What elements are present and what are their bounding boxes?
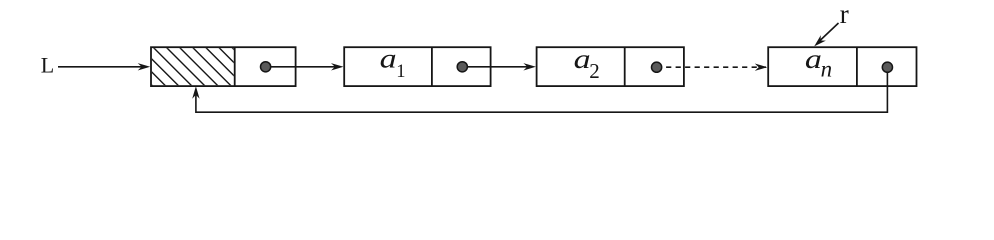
svg-text:a: a bbox=[805, 44, 822, 74]
svg-text:1: 1 bbox=[396, 62, 405, 82]
svg-text:2: 2 bbox=[589, 59, 600, 83]
svg-text:a: a bbox=[574, 44, 591, 74]
svg-text:L: L bbox=[41, 53, 54, 78]
svg-text:n: n bbox=[821, 57, 833, 82]
svg-text:a: a bbox=[380, 43, 397, 73]
svg-text:r: r bbox=[840, 0, 849, 29]
